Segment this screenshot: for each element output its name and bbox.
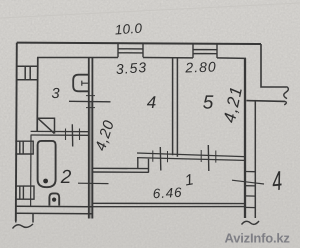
wall right outer face [254,101,256,218]
wall right outer [244,58,246,218]
label 2 leader [78,182,109,184]
bathtub drain [43,179,48,184]
wall left stub [16,213,33,222]
wall step [138,158,149,173]
door opening bath [71,124,73,146]
wall divider rooms 3/4 [89,57,93,218]
svg-text:3.53: 3.53 [115,59,147,77]
break tilde left [13,224,34,229]
toilet [49,193,59,205]
door leaf square room3 [38,118,55,133]
vent shaft bath upper [15,141,33,154]
door opening room 4 [159,147,162,171]
window W1 [118,43,143,57]
svg-text:2.80: 2.80 [184,58,217,75]
break squiggle upper [284,87,289,99]
sink room3 [73,75,89,92]
wall right rungs [245,172,255,208]
svg-text:4: 4 [147,93,156,112]
svg-text:AvizInfo.kz: AvizInfo.kz [225,231,291,246]
wall corridor B [137,153,244,160]
wall top outer [17,43,261,44]
paper crease [0,3,300,18]
vent shaft bath lower [15,186,34,199]
wall right upper step [261,44,287,87]
svg-text:6.46: 6.46 [152,185,182,202]
window W2 [193,44,217,58]
wall bath top [31,131,89,135]
svg-text:5: 5 [203,93,214,114]
sink tap [82,81,89,86]
svg-text:10.0: 10.0 [114,21,143,38]
wall bottom right [92,203,245,206]
dimension tick 4 [232,180,264,184]
vent shaft top-left [17,66,38,80]
wall divider rooms 4/5 [173,58,178,157]
svg-text:2: 2 [60,167,72,188]
wall right lower ledge [246,100,285,103]
door opening room 5 [207,145,210,171]
wall left outer [15,43,18,221]
wall room3 left [36,58,39,132]
wall top inner [37,57,246,60]
break squiggle lower [284,101,286,104]
wall bath left inner [30,135,32,206]
wall corridor A [92,168,148,172]
bathtub [38,141,56,187]
door opening rooms 3/4 [69,100,111,103]
wall bottom left [16,206,93,213]
toilet dot [52,198,56,202]
svg-text:3: 3 [51,86,59,102]
break tilde right [242,221,260,225]
